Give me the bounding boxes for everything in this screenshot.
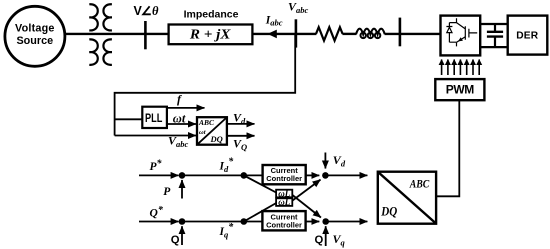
svg-text:ABC: ABC — [198, 118, 215, 127]
wire cross-couple from I_q to omega-L 2 — [244, 202, 278, 222]
wire V_abc into transform — [115, 135, 196, 137]
svg-text:ωL: ωL — [278, 197, 291, 207]
svg-text:Source: Source — [16, 35, 53, 47]
Q feedback arrow — [181, 226, 183, 245]
PLL block — [142, 107, 167, 128]
wire to current controller 2 — [244, 221, 263, 223]
svg-text:Voltage: Voltage — [15, 23, 55, 35]
DC link bottom rail — [480, 46, 508, 48]
svg-text:DQ: DQ — [210, 134, 223, 144]
bus node 3 — [399, 18, 402, 47]
omega-L block 2 — [276, 198, 292, 206]
node sum P — [179, 172, 186, 179]
svg-text:Vq: Vq — [333, 232, 346, 247]
V_q feedforward arrow — [325, 226, 327, 246]
svg-text:DER: DER — [516, 30, 539, 41]
node sum Vq out — [322, 218, 329, 225]
svg-text:V: V — [134, 4, 143, 18]
svg-text:Q: Q — [315, 234, 324, 246]
svg-text:VQ: VQ — [233, 137, 247, 152]
PWM gate signal arrows — [442, 60, 480, 76]
svg-text:Vd: Vd — [333, 153, 346, 168]
node sum Q — [179, 218, 186, 225]
P feedback arrow — [181, 180, 183, 199]
wire impedance to inverter — [252, 33, 316, 35]
wire omega-L1 to q sum — [291, 194, 321, 218]
svg-text:Iabc: Iabc — [265, 14, 283, 27]
node I_d — [241, 172, 248, 179]
svg-text:P*: P* — [150, 159, 163, 173]
svg-text:ABC: ABC — [409, 177, 430, 191]
DC link top rail — [480, 23, 508, 25]
PWM block — [435, 79, 484, 100]
svg-text:Id*: Id* — [219, 157, 235, 174]
current controller block 1 — [263, 165, 306, 184]
wire CC2 output — [306, 221, 320, 223]
output V_Q — [227, 135, 255, 137]
svg-text:PWM: PWM — [446, 83, 475, 97]
svg-text:ωt: ωt — [199, 129, 206, 136]
wire Q* input — [139, 221, 179, 223]
current arrow I_abc — [268, 30, 277, 39]
wire dq-abc block to PWM — [436, 100, 459, 196]
wire main AC bus — [64, 33, 169, 35]
svg-text:θ: θ — [152, 4, 159, 18]
V_d feedforward arrow — [324, 153, 326, 169]
inductor L — [356, 29, 385, 35]
svg-text:ωt: ωt — [173, 112, 186, 126]
transformer T1 secondary winding — [103, 4, 111, 65]
wire CC1 output — [306, 174, 320, 176]
abc-dq transform block (small) — [197, 117, 227, 145]
dq-abc transform block (large) — [378, 172, 436, 224]
svg-text:f: f — [177, 92, 182, 106]
DER block — [508, 16, 548, 55]
wire to current controller 1 — [244, 174, 263, 176]
wire P* input — [139, 174, 179, 176]
svg-text:DQ: DQ — [380, 205, 397, 219]
inverter block U1 — [441, 16, 481, 56]
bus node 2 — [295, 19, 298, 47]
wire to I_q node — [182, 221, 244, 223]
current controller block 2 — [262, 211, 305, 230]
svg-text:Vabc: Vabc — [288, 0, 309, 15]
svg-text:R + jX: R + jX — [189, 28, 231, 43]
wire V_abc tap down — [115, 35, 296, 136]
wire PLL input — [115, 118, 143, 120]
voltage source circle — [5, 6, 65, 66]
IGBT Q1 — [449, 23, 477, 47]
wire q sum to dq-abc — [326, 221, 368, 223]
svg-text:Iq*: Iq* — [219, 222, 235, 239]
capacitor C1 — [494, 24, 496, 47]
frequency output f — [167, 107, 205, 109]
svg-text:Impedance: Impedance — [184, 8, 239, 20]
svg-text:Q*: Q* — [150, 205, 164, 219]
resistor R — [316, 27, 343, 40]
omega-L block 1 — [276, 190, 292, 198]
svg-text:Controller: Controller — [266, 174, 302, 183]
node I_q — [241, 218, 248, 225]
svg-text:Controller: Controller — [266, 220, 302, 229]
omega-t output — [167, 123, 196, 125]
transformer T1 primary winding — [89, 4, 97, 65]
svg-text:Vd: Vd — [233, 111, 246, 126]
svg-text:PLL: PLL — [145, 111, 162, 125]
node sum Vd out — [322, 172, 329, 179]
wire cross-couple from I_d to omega-L 1 — [244, 175, 278, 193]
bus node 1 — [144, 21, 147, 49]
wire to I_d node — [182, 174, 244, 176]
svg-text:Q: Q — [171, 234, 180, 246]
IGBT top stub — [449, 18, 456, 22]
wire omega-L2 to d sum — [291, 180, 321, 202]
diode D1 — [446, 23, 452, 43]
wire d sum to dq-abc — [325, 174, 367, 176]
svg-text:P: P — [163, 186, 171, 198]
impedance block R+jX — [169, 25, 253, 45]
output V_d — [227, 123, 255, 125]
